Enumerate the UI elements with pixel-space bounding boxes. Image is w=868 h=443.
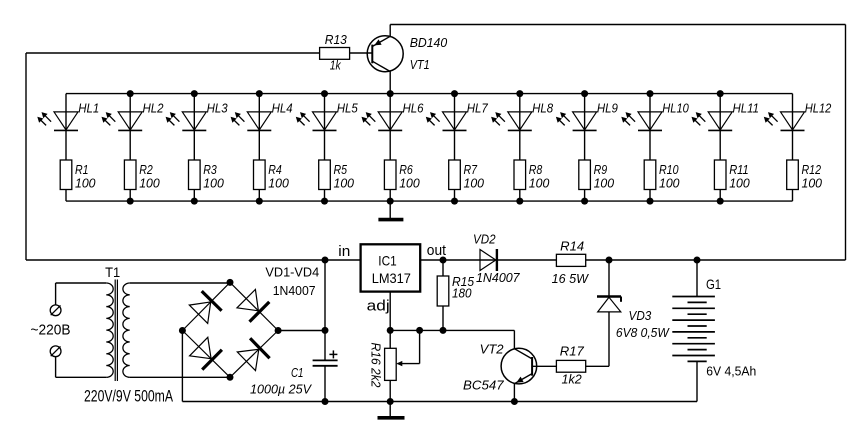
svg-text:R14: R14 — [560, 240, 584, 254]
wire C1 column lower — [324, 366, 326, 402]
svg-text:100: 100 — [75, 176, 96, 190]
svg-text:100: 100 — [802, 176, 823, 190]
resistor R3 — [189, 160, 201, 190]
svg-text:G1: G1 — [706, 277, 721, 292]
resistor R6 — [384, 160, 396, 190]
svg-text:BC547: BC547 — [463, 379, 505, 393]
svg-text:R12: R12 — [802, 163, 822, 177]
svg-text:C1: C1 — [291, 366, 304, 380]
junction cathode bus HL9 — [581, 198, 588, 205]
svg-text:HL8: HL8 — [532, 101, 553, 115]
transformer T1 primary winding — [106, 283, 113, 377]
svg-text:HL6: HL6 — [403, 101, 424, 115]
svg-text:R6: R6 — [399, 163, 413, 177]
svg-text:VD1-VD4: VD1-VD4 — [265, 266, 319, 280]
svg-text:100: 100 — [203, 176, 224, 190]
svg-text:100: 100 — [729, 176, 750, 190]
svg-text:BD140: BD140 — [410, 36, 448, 50]
wire R10 to cathode bus — [649, 190, 651, 202]
junction input rail / rectifier — [322, 257, 329, 264]
resistor R15 — [437, 276, 449, 306]
svg-text:VD2: VD2 — [473, 233, 496, 247]
junction cathode bus HL2 — [127, 198, 134, 205]
junction out / G1 — [694, 257, 701, 264]
wire R7 to cathode bus — [454, 190, 456, 202]
junction ground bus / VT2 emitter — [511, 398, 518, 405]
resistor R7 — [449, 160, 461, 190]
resistor R17 — [556, 360, 585, 372]
svg-text:HL2: HL2 — [143, 101, 164, 115]
LED HL10 — [649, 94, 651, 160]
svg-text:R10: R10 — [659, 163, 679, 177]
junction bridge right — [275, 327, 282, 334]
svg-text:100: 100 — [139, 176, 160, 190]
zener diode VD3 — [608, 260, 610, 297]
svg-text:1k: 1k — [330, 58, 342, 72]
svg-text:HL1: HL1 — [78, 101, 99, 115]
wire secondary top lead to bridge — [130, 282, 230, 284]
LED HL11 — [719, 94, 721, 160]
wire right frame down to battery rail — [845, 25, 847, 261]
wire G1 top lead — [696, 260, 698, 297]
svg-text:HL11: HL11 — [733, 101, 760, 115]
junction cathode bus HL10 — [647, 198, 654, 205]
wire ground bus — [182, 401, 697, 403]
ground (power section) — [378, 416, 405, 420]
junction anode bus HL8 — [516, 90, 523, 97]
LED HL12 — [792, 94, 794, 160]
svg-text:HL9: HL9 — [597, 101, 618, 115]
svg-text:100: 100 — [594, 176, 615, 190]
junction anode bus HL10 — [647, 90, 654, 97]
potentiometer R16 — [385, 348, 397, 380]
wire R13 to VT1 base — [350, 52, 373, 54]
resistor R14 — [556, 254, 585, 266]
junction ground bus / R16 — [387, 398, 394, 405]
LED HL5 — [324, 94, 326, 160]
wire R15 bottom lead — [442, 306, 444, 330]
svg-text:220V/9V 500mA: 220V/9V 500mA — [84, 387, 173, 405]
LED HL2 — [129, 94, 131, 160]
svg-text:HL7: HL7 — [467, 101, 489, 115]
junction cathode bus HL11 — [717, 198, 724, 205]
wire secondary bottom lead to bridge — [130, 376, 230, 378]
svg-text:R5: R5 — [334, 163, 348, 177]
LED HL4 — [258, 94, 260, 160]
LED HL3 — [193, 94, 195, 160]
svg-text:HL12: HL12 — [805, 101, 832, 115]
svg-text:VT2: VT2 — [480, 343, 504, 357]
svg-text:16 5W: 16 5W — [552, 272, 589, 286]
junction cathode bus HL6 — [387, 198, 394, 205]
junction out / VD3 — [606, 257, 613, 264]
svg-text:100: 100 — [399, 176, 420, 190]
svg-text:VD3: VD3 — [629, 309, 652, 323]
svg-text:HL10: HL10 — [662, 101, 689, 115]
svg-text:HL5: HL5 — [337, 101, 358, 115]
bridge diode 1 — [189, 302, 210, 324]
junction cathode bus HL7 — [451, 198, 458, 205]
wire C1 column upper — [324, 260, 326, 360]
wire ground stub — [389, 402, 391, 417]
svg-text:180: 180 — [452, 287, 472, 301]
C1 plus sign — [329, 353, 337, 355]
LED HL1 — [65, 94, 67, 160]
transformer T1 core — [114, 280, 116, 382]
junction bridge top — [227, 279, 234, 286]
svg-text:HL3: HL3 — [207, 101, 228, 115]
resistor R2 — [124, 160, 136, 190]
wire top rail from VT1 emitter to right frame — [390, 24, 845, 26]
svg-text:R2: R2 — [139, 163, 153, 177]
ground (LED array) — [378, 218, 403, 222]
junction cathode bus HL5 — [321, 198, 328, 205]
wire output rail — [420, 259, 845, 261]
resistor R5 — [319, 160, 331, 190]
wire bridge right to C1 column — [278, 330, 325, 332]
svg-text:100: 100 — [268, 176, 289, 190]
junction adj / wiper — [416, 327, 423, 334]
resistor R8 — [514, 160, 526, 190]
wire primary bottom lead — [55, 357, 57, 378]
resistor R13 — [320, 48, 350, 60]
junction anode bus HL11 — [717, 90, 724, 97]
wire R2 to cathode bus — [129, 190, 131, 202]
junction cathode bus HL8 — [516, 198, 523, 205]
battery G1 — [672, 296, 715, 298]
junction C1 column / bridge — [322, 327, 329, 334]
LED HL9 — [584, 94, 586, 160]
svg-text:R9: R9 — [594, 163, 608, 177]
capacitor C1 — [313, 359, 338, 361]
svg-text:in: in — [338, 244, 350, 260]
svg-text:VT1: VT1 — [410, 58, 430, 72]
svg-text:R11: R11 — [729, 163, 749, 177]
wire R4 to cathode bus — [258, 190, 260, 202]
wire adj net down to VT2 collector — [513, 330, 515, 348]
wire LED bus to ground — [389, 201, 391, 218]
svg-text:R4: R4 — [268, 163, 282, 177]
svg-text:6V 4,5Ah: 6V 4,5Ah — [706, 363, 756, 378]
IC1 regulator box — [361, 244, 421, 291]
wire LED anode bus — [66, 93, 793, 95]
junction cathode bus HL3 — [191, 198, 198, 205]
junction cathode bus HL4 — [256, 198, 263, 205]
svg-text:LM317: LM317 — [372, 270, 411, 286]
bridge diode 4 — [237, 349, 258, 370]
wire R1 to cathode bus — [65, 190, 67, 202]
junction anode bus HL2 — [127, 90, 134, 97]
junction anode bus HL6 — [387, 90, 394, 97]
wire primary top lead — [56, 282, 107, 284]
resistor R4 — [254, 160, 266, 190]
wire R3 to cathode bus — [193, 190, 195, 202]
svg-text:adj: adj — [367, 299, 390, 315]
resistor R9 — [579, 160, 591, 190]
junction anode bus HL4 — [256, 90, 263, 97]
svg-text:R3: R3 — [203, 163, 217, 177]
LED HL8 — [519, 94, 521, 160]
transistor VT2 BC547 (NPN) — [501, 348, 537, 384]
wire adj net horizontal — [390, 329, 514, 331]
wire bridge left down to ground bus — [181, 331, 183, 402]
terminal X1 (~220V) — [50, 305, 61, 316]
junction adj / R16 — [387, 327, 394, 334]
junction out / R15 — [440, 257, 447, 264]
wire R16 bottom lead — [389, 380, 391, 401]
diode VD2 — [480, 250, 496, 271]
bridge VD1-VD4 edges — [182, 282, 230, 330]
svg-text:~220B: ~220B — [31, 322, 71, 339]
transistor VT1 BD140 (PNP) — [367, 36, 403, 72]
svg-text:1000µ 25V: 1000µ 25V — [250, 383, 313, 397]
LED HL7 — [454, 94, 456, 160]
junction adj / R15 — [440, 327, 447, 334]
terminal X2 (~220V) — [50, 346, 61, 357]
wire R17 to VT2 base — [532, 365, 556, 367]
wire adj pin — [389, 292, 391, 331]
svg-text:R17: R17 — [560, 344, 585, 358]
wire R5 to cathode bus — [324, 190, 326, 202]
junction bridge bottom — [227, 374, 234, 381]
svg-text:T1: T1 — [105, 264, 120, 280]
svg-text:R7: R7 — [464, 163, 478, 177]
svg-text:IC1: IC1 — [378, 253, 397, 269]
resistor R11 — [714, 160, 726, 190]
wire R15 top lead — [442, 260, 444, 276]
svg-text:1N4007: 1N4007 — [476, 271, 521, 285]
resistor R10 — [644, 160, 656, 190]
wire R9 to cathode bus — [584, 190, 586, 202]
wire R11 to cathode bus — [719, 190, 721, 202]
bridge diode 2 — [237, 289, 258, 310]
svg-text:R16 2k2: R16 2k2 — [368, 343, 382, 388]
svg-text:100: 100 — [334, 176, 355, 190]
svg-text:100: 100 — [464, 176, 485, 190]
junction ground bus / C1 — [322, 398, 329, 405]
transformer T1 secondary winding — [123, 283, 130, 377]
resistor R12 — [787, 160, 799, 190]
resistor R1 — [60, 160, 72, 190]
wire R13 base line left segment — [26, 52, 320, 54]
svg-text:1N4007: 1N4007 — [273, 284, 316, 298]
wire R8 to cathode bus — [519, 190, 521, 202]
wire R12 to cathode bus — [792, 190, 794, 202]
svg-text:HL4: HL4 — [272, 101, 293, 115]
R16 wiper arm — [419, 330, 421, 363]
svg-text:6V8 0,5W: 6V8 0,5W — [616, 326, 670, 340]
junction bridge left — [179, 327, 186, 334]
junction anode bus HL5 — [321, 90, 328, 97]
junction anode bus HL7 — [451, 90, 458, 97]
wire R16 top lead — [389, 330, 391, 348]
wire left frame down to IC input rail — [25, 53, 27, 260]
svg-text:R1: R1 — [75, 163, 89, 177]
svg-text:R8: R8 — [529, 163, 543, 177]
bridge diode 3 — [190, 337, 212, 358]
svg-text:1k2: 1k2 — [562, 373, 582, 387]
wire VD3 to R17 — [586, 365, 609, 367]
svg-text:R13: R13 — [325, 33, 347, 47]
wire input rail to IC1 — [26, 259, 361, 261]
junction anode bus HL9 — [581, 90, 588, 97]
wire LED cathode bus — [66, 200, 793, 202]
wire G1 bottom lead — [696, 361, 698, 401]
svg-text:100: 100 — [659, 176, 680, 190]
LED HL6 — [389, 94, 391, 160]
svg-text:100: 100 — [529, 176, 550, 190]
junction anode bus HL3 — [191, 90, 198, 97]
wire R6 to cathode bus — [389, 190, 391, 202]
